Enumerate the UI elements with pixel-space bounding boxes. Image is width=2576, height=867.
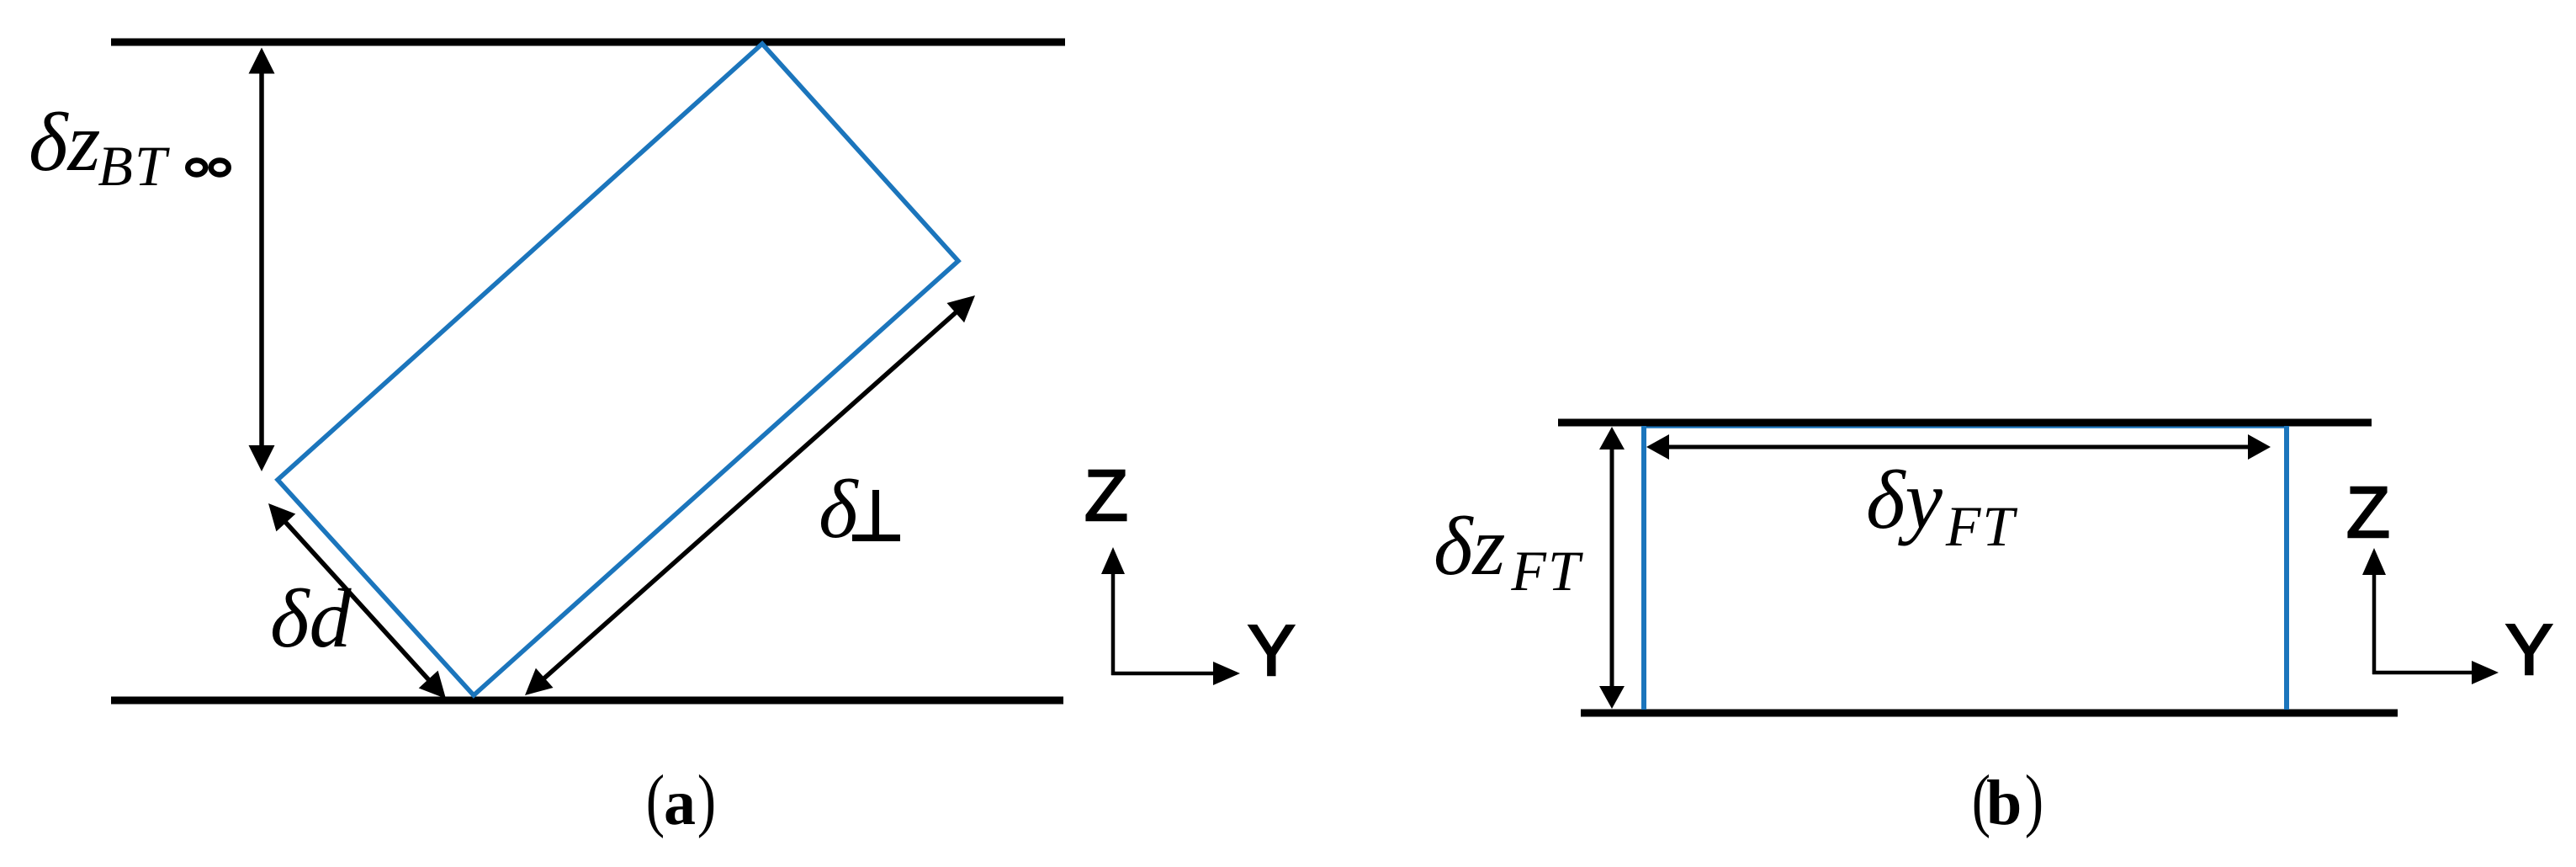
svg-text:Z: Z bbox=[2346, 473, 2390, 553]
svg-text:Y: Y bbox=[2505, 610, 2553, 690]
svg-text:(: ( bbox=[646, 761, 665, 839]
svg-text:Z: Z bbox=[1084, 456, 1128, 536]
svg-text:): ) bbox=[697, 761, 716, 839]
svg-text:Y: Y bbox=[1248, 611, 1296, 691]
svg-text:): ) bbox=[2025, 761, 2043, 839]
svg-text:δ: δ bbox=[819, 462, 859, 556]
svg-text:b: b bbox=[1986, 768, 2022, 838]
svg-text:δd: δd bbox=[270, 572, 352, 665]
svg-text:a: a bbox=[664, 768, 696, 838]
